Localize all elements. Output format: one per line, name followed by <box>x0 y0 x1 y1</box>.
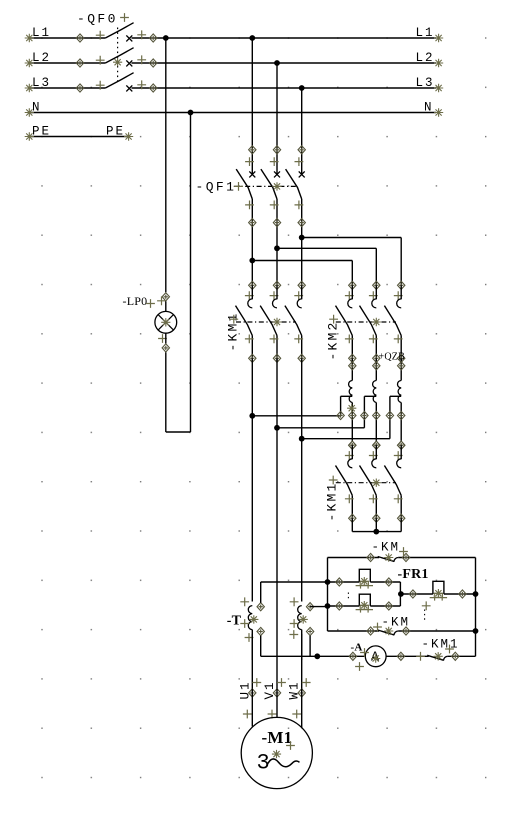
svg-text:N: N <box>424 100 434 114</box>
svg-text:W1: W1 <box>288 680 302 699</box>
svg-text:N: N <box>32 100 42 114</box>
svg-text:-KM2: -KM2 <box>326 320 341 360</box>
svg-text:L3: L3 <box>416 76 435 90</box>
svg-text:-KM: -KM <box>372 541 401 555</box>
svg-text:-KM1: -KM1 <box>325 481 340 521</box>
svg-text:-LP0: -LP0 <box>123 294 148 308</box>
svg-text:L1: L1 <box>32 26 51 40</box>
svg-text:V1: V1 <box>263 680 277 699</box>
svg-text:-QF1: -QF1 <box>196 180 237 195</box>
svg-text:-A: -A <box>351 642 363 654</box>
svg-text:L2: L2 <box>32 51 51 65</box>
svg-text:L3: L3 <box>32 76 51 90</box>
svg-text:-M1: -M1 <box>262 728 293 747</box>
svg-text:U1: U1 <box>238 680 252 699</box>
svg-text:PE: PE <box>32 124 51 138</box>
svg-text:L1: L1 <box>416 26 435 40</box>
svg-text:-T: -T <box>227 614 242 629</box>
svg-text:PE: PE <box>106 124 125 138</box>
svg-text:-KM: -KM <box>382 616 411 630</box>
svg-text:-FR1: -FR1 <box>398 567 429 582</box>
svg-text:L2: L2 <box>416 51 435 65</box>
svg-text:-QF0: -QF0 <box>77 12 118 27</box>
svg-text:-KM1: -KM1 <box>226 311 241 351</box>
